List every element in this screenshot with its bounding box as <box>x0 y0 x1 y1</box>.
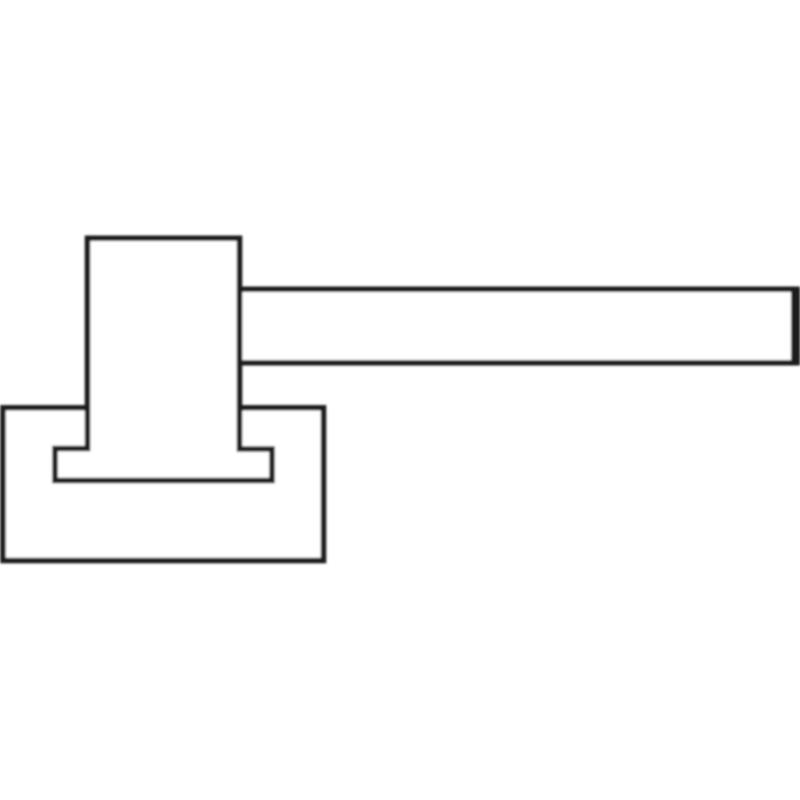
mounting plate (bottom rectangle) <box>3 408 324 561</box>
handle neck with flange (T-shape) <box>55 238 272 480</box>
lever bar right end cap <box>791 287 800 366</box>
lever bar (horizontal arm) <box>240 289 795 363</box>
